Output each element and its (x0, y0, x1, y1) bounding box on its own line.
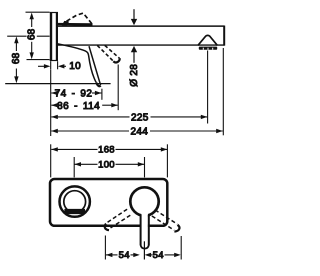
handle raised dashed (67, 13, 93, 24)
dim 68 inner label (27, 28, 37, 42)
row1 dim 74-92 (51, 92, 56, 94)
dashed lever front right cap (174, 225, 179, 232)
svg-text:100: 100 (98, 160, 115, 171)
aerator outlet bar (199, 47, 217, 50)
dim 54 extension lines (104, 236, 106, 260)
spout outlet inner circle (64, 191, 86, 213)
handle stem left edge (140, 215, 142, 245)
lever mid dashed line2 (105, 45, 120, 58)
dashed lever front left cap (105, 224, 109, 231)
dim 10 extension lines (50, 61, 52, 69)
row2 right extension (117, 65, 119, 111)
dashed lever front right line2 (152, 216, 174, 230)
dim d28 arrow down (133, 9, 135, 19)
svg-text:225: 225 (131, 113, 149, 124)
aerator dome (198, 35, 218, 45)
svg-text:10: 10 (69, 61, 81, 72)
handle closed top bar (58, 23, 93, 26)
dim 54 left (106, 253, 113, 257)
row4 dim 244 (51, 130, 222, 132)
svg-text:244: 244 (131, 127, 149, 138)
svg-text:86 - 114: 86 - 114 (57, 101, 100, 112)
dim 68 inner line (31, 18, 33, 28)
svg-text:68: 68 (11, 52, 22, 64)
escutcheon plate front view (50, 179, 167, 226)
dim 100 (73, 157, 75, 177)
row4 right extension (222, 48, 224, 135)
dim 10 arrows (38, 65, 45, 67)
svg-text:168: 168 (98, 145, 115, 156)
handle stem bottom cap (141, 245, 149, 249)
row3 right extension (207, 51, 209, 124)
lever mid dashed line1 (97, 45, 113, 61)
svg-text:Ø 28: Ø 28 (129, 64, 140, 87)
spout top line (58, 25, 225, 27)
dim 54 right (145, 253, 152, 257)
spout end cap (223, 26, 225, 46)
svg-text:68: 68 (26, 28, 37, 40)
left extension line for rows (50, 70, 52, 137)
handle stem right edge (148, 215, 150, 245)
row2 dim 86-114 (51, 104, 55, 106)
svg-text:74 - 92: 74 - 92 (55, 89, 93, 100)
spout outlet outer circle (59, 186, 89, 216)
dim 68 outer line (15, 42, 17, 52)
extension line lower long (5, 83, 110, 85)
dashed lever front left line2 (109, 215, 130, 229)
wall plate (side view) (50, 12, 58, 61)
handle stem white mask (142, 213, 148, 228)
dashed lever front left line1 (106, 209, 127, 223)
extension line spout centre (7, 35, 49, 37)
dashed lever front right line1 (155, 210, 177, 224)
lever down solid inner (89, 46, 101, 85)
spout bottom line (58, 44, 225, 46)
lever mid tip cap (113, 58, 120, 62)
row1 right extension (101, 89, 103, 100)
lever down tip cap (96, 83, 100, 87)
dim d28 arrow up (133, 52, 135, 63)
handle wedge (62, 21, 69, 26)
svg-text:54: 54 (119, 250, 130, 261)
spout outlet bar (64, 209, 85, 214)
dim 168 (50, 144, 52, 177)
svg-text:54: 54 (153, 250, 164, 261)
lever down solid outer (58, 44, 97, 83)
extension line plate top (26, 11, 50, 13)
extension line plate bottom (27, 59, 50, 61)
row3 dim 225 (51, 116, 207, 118)
handle circle front (130, 187, 158, 215)
dim 68 outer label (11, 52, 21, 66)
